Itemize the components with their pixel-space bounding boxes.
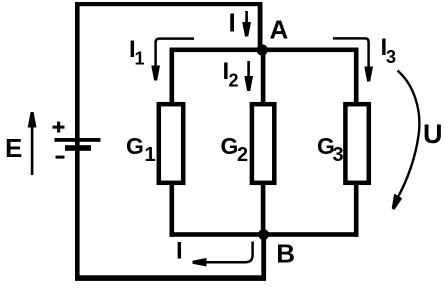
current arrow I1 (hook into branch 1) — [156, 39, 194, 68]
svg-text:B: B — [276, 239, 295, 269]
svg-text:E: E — [5, 133, 22, 163]
wire: branch 1 from bus to G1 — [170, 48, 175, 105]
svg-text:G: G — [126, 133, 144, 159]
node A junction dot — [257, 44, 268, 55]
svg-text:I: I — [176, 238, 183, 265]
current arrow I (bottom, out of node B, pointing left) — [203, 242, 253, 263]
EMF arrow for E (pointing up) — [31, 116, 34, 175]
battery E: positive plate — [55, 138, 101, 142]
wire: drop from top side to node A — [258, 2, 263, 52]
svg-text:G: G — [221, 133, 239, 159]
current arrow I (top, into node A) — [245, 11, 248, 24]
wire: left side of outer loop — [75, 2, 80, 280]
svg-text:I: I — [229, 8, 236, 38]
wire: branch 2 from node A to G2 — [261, 50, 266, 104]
wire: node B down to bottom side — [261, 234, 266, 278]
current arrow I3 (hook into branch 3) — [333, 38, 369, 68]
battery minus sign — [56, 156, 65, 159]
svg-text:U: U — [423, 119, 443, 149]
resistor G3 (conductance box) — [345, 104, 368, 183]
svg-text:2: 2 — [229, 71, 239, 91]
svg-text:3: 3 — [333, 144, 344, 166]
current arrow I2 (down into G2) — [247, 61, 250, 78]
node B junction dot — [258, 229, 269, 240]
wire: bottom side of outer loop — [75, 275, 266, 281]
node A bus wire (top horizontal between branches) — [170, 48, 359, 53]
svg-text:A: A — [270, 15, 289, 45]
wire: G1 to bottom bus — [170, 182, 175, 237]
svg-text:1: 1 — [145, 144, 156, 166]
battery E: negative plate — [65, 145, 91, 151]
voltage arrow U (arc on right) — [397, 71, 419, 199]
wire: top side of outer loop — [75, 2, 263, 6]
wire: G2 to bottom bus — [261, 182, 266, 237]
resistor G2 (conductance box) — [252, 104, 274, 183]
battery plus sign — [53, 122, 65, 133]
svg-text:2: 2 — [237, 144, 248, 166]
wire: branch 3 from bus to G3 — [354, 48, 359, 105]
resistor G1 (conductance box) — [159, 104, 183, 183]
svg-text:1: 1 — [135, 49, 145, 69]
svg-text:3: 3 — [386, 47, 396, 67]
wire: G3 to bottom bus — [354, 182, 359, 237]
node B bus wire (bottom horizontal between branches) — [170, 232, 359, 237]
